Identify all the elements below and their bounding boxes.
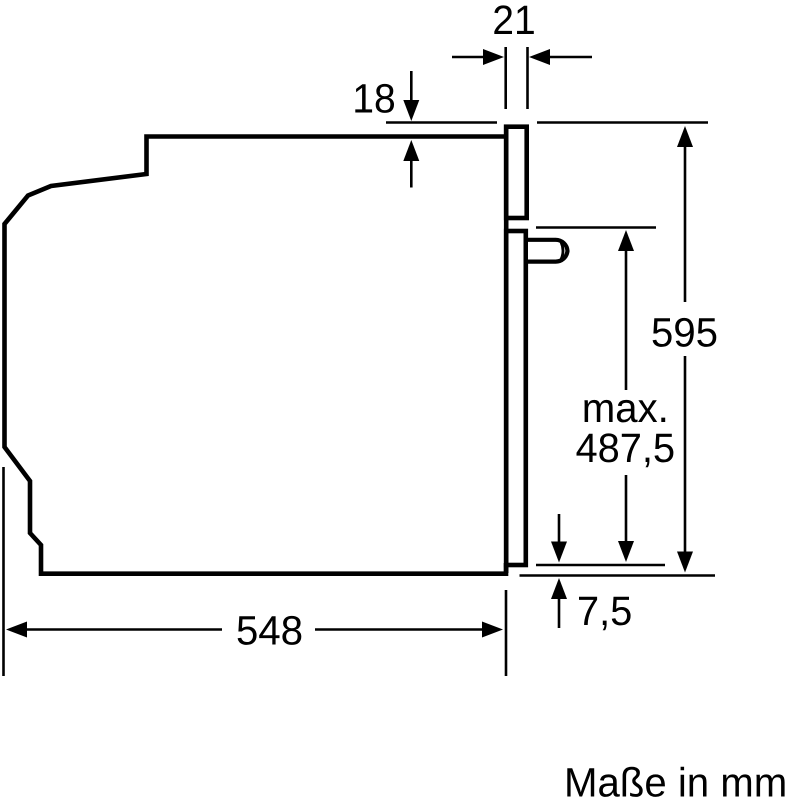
extension line 21 right	[526, 47, 529, 109]
dimension 18 down arrow	[410, 71, 413, 104]
extension line 548 right	[505, 590, 508, 676]
extension line door-top level left of strip	[386, 121, 497, 124]
dimension 548 right arrow	[482, 622, 503, 638]
oven door	[506, 231, 526, 565]
dimension 548 left arrow	[6, 622, 27, 638]
dimension 21 left arrow	[452, 56, 486, 59]
dimension max487 label max	[584, 400, 665, 423]
extension line door-top level right of strip	[537, 121, 708, 124]
door hinge-side vertical line	[504, 125, 509, 574]
dimension 18 label	[355, 84, 394, 113]
extension line 548 left	[2, 467, 5, 676]
control panel strip	[506, 127, 527, 218]
dimension 7,5 down arrow	[558, 514, 561, 545]
dimension max487 up arrow	[618, 230, 634, 251]
dimension max487 line upper	[625, 248, 628, 390]
dimension 18 up arrow	[410, 158, 413, 188]
caption Masse in mm	[567, 767, 784, 797]
dimension 595 line upper	[684, 144, 687, 302]
dimension max487 down arrow	[618, 541, 634, 562]
dimension 548 line right	[315, 628, 482, 631]
dimension max487 label 487,5	[577, 433, 674, 467]
dimension 548 line left	[24, 628, 222, 631]
handle end inner arc	[561, 242, 563, 260]
extension line door bottom	[536, 564, 665, 567]
extension line body bottom	[520, 574, 716, 577]
dimension 7,5 up arrow	[558, 597, 561, 628]
dimension 21 right arrow	[549, 56, 592, 59]
extension line 21 left	[504, 47, 507, 109]
dimension 595 label	[653, 318, 717, 347]
dimension 595 up arrow	[677, 126, 693, 147]
dimension 595 line lower	[684, 356, 687, 556]
dimension max487 line lower	[625, 475, 628, 545]
dimension 595 down arrow	[677, 552, 693, 573]
extension line max487 top	[536, 226, 656, 229]
dimension 7,5 label	[579, 597, 631, 630]
door handle	[528, 240, 568, 262]
dimension 21 label	[494, 5, 534, 34]
oven body outline	[5, 137, 507, 574]
dimension 548 label	[238, 616, 302, 645]
